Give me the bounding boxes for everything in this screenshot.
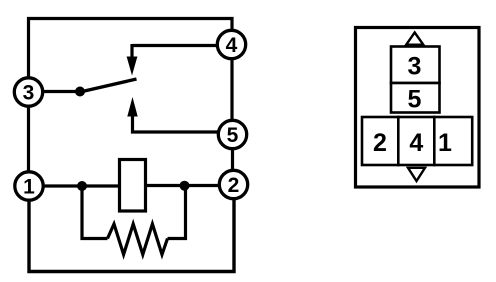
wire from relay coil to terminal 2 [146, 184, 219, 187]
svg-text:4: 4 [226, 34, 238, 57]
wire from terminal 3 to switch pole junction [43, 90, 80, 93]
terminal 5 [218, 120, 246, 148]
terminal 1 [15, 172, 43, 200]
wire from terminal 1 to relay coil [44, 184, 120, 187]
svg-text:2: 2 [228, 174, 240, 197]
junction dot right of coil [180, 181, 190, 191]
wire left lead of resistor [82, 188, 108, 239]
relay coil K1 [120, 160, 146, 212]
pin box 5 [391, 83, 440, 114]
NC contact arrow pointing up [127, 97, 137, 117]
svg-text:5: 5 [227, 124, 239, 147]
wire right lead of resistor [168, 188, 186, 239]
junction dot left of coil [77, 181, 87, 191]
NO contact arrow pointing down [127, 57, 138, 76]
pin box 2 [362, 117, 398, 165]
wire from terminal 5 down to terminal 2 [231, 149, 234, 170]
pin box 4 [398, 117, 434, 165]
wire top loop from terminal 3 to terminal 4 [29, 19, 233, 79]
terminal 3 [14, 78, 42, 106]
terminal 2 [219, 170, 247, 198]
wire from terminal 3 down to terminal 1 [27, 106, 30, 172]
wire bottom loop from terminal 1 to terminal 2 [29, 198, 234, 272]
socket outline [356, 28, 480, 188]
wire from NC contact arrow to terminal 5 [133, 115, 219, 132]
pin box 1 [434, 117, 472, 165]
svg-text:2: 2 [373, 129, 387, 157]
wire from terminal 4 down to terminal 5 [230, 59, 233, 120]
svg-text:1: 1 [438, 129, 452, 157]
switch SW1 movable arm [80, 79, 137, 92]
pin box 3 [391, 47, 440, 84]
socket bottom index arrow [408, 168, 425, 181]
svg-text:3: 3 [408, 53, 422, 81]
socket top index arrow [406, 33, 423, 45]
svg-text:5: 5 [408, 86, 422, 114]
terminal 4 [217, 30, 245, 58]
svg-text:3: 3 [23, 82, 35, 105]
svg-text:1: 1 [23, 176, 35, 199]
svg-text:4: 4 [409, 129, 423, 157]
resistor R1 [108, 224, 168, 255]
wire from NO contact arrow to terminal 4 [132, 44, 218, 58]
junction dot on switch pole [75, 87, 85, 97]
